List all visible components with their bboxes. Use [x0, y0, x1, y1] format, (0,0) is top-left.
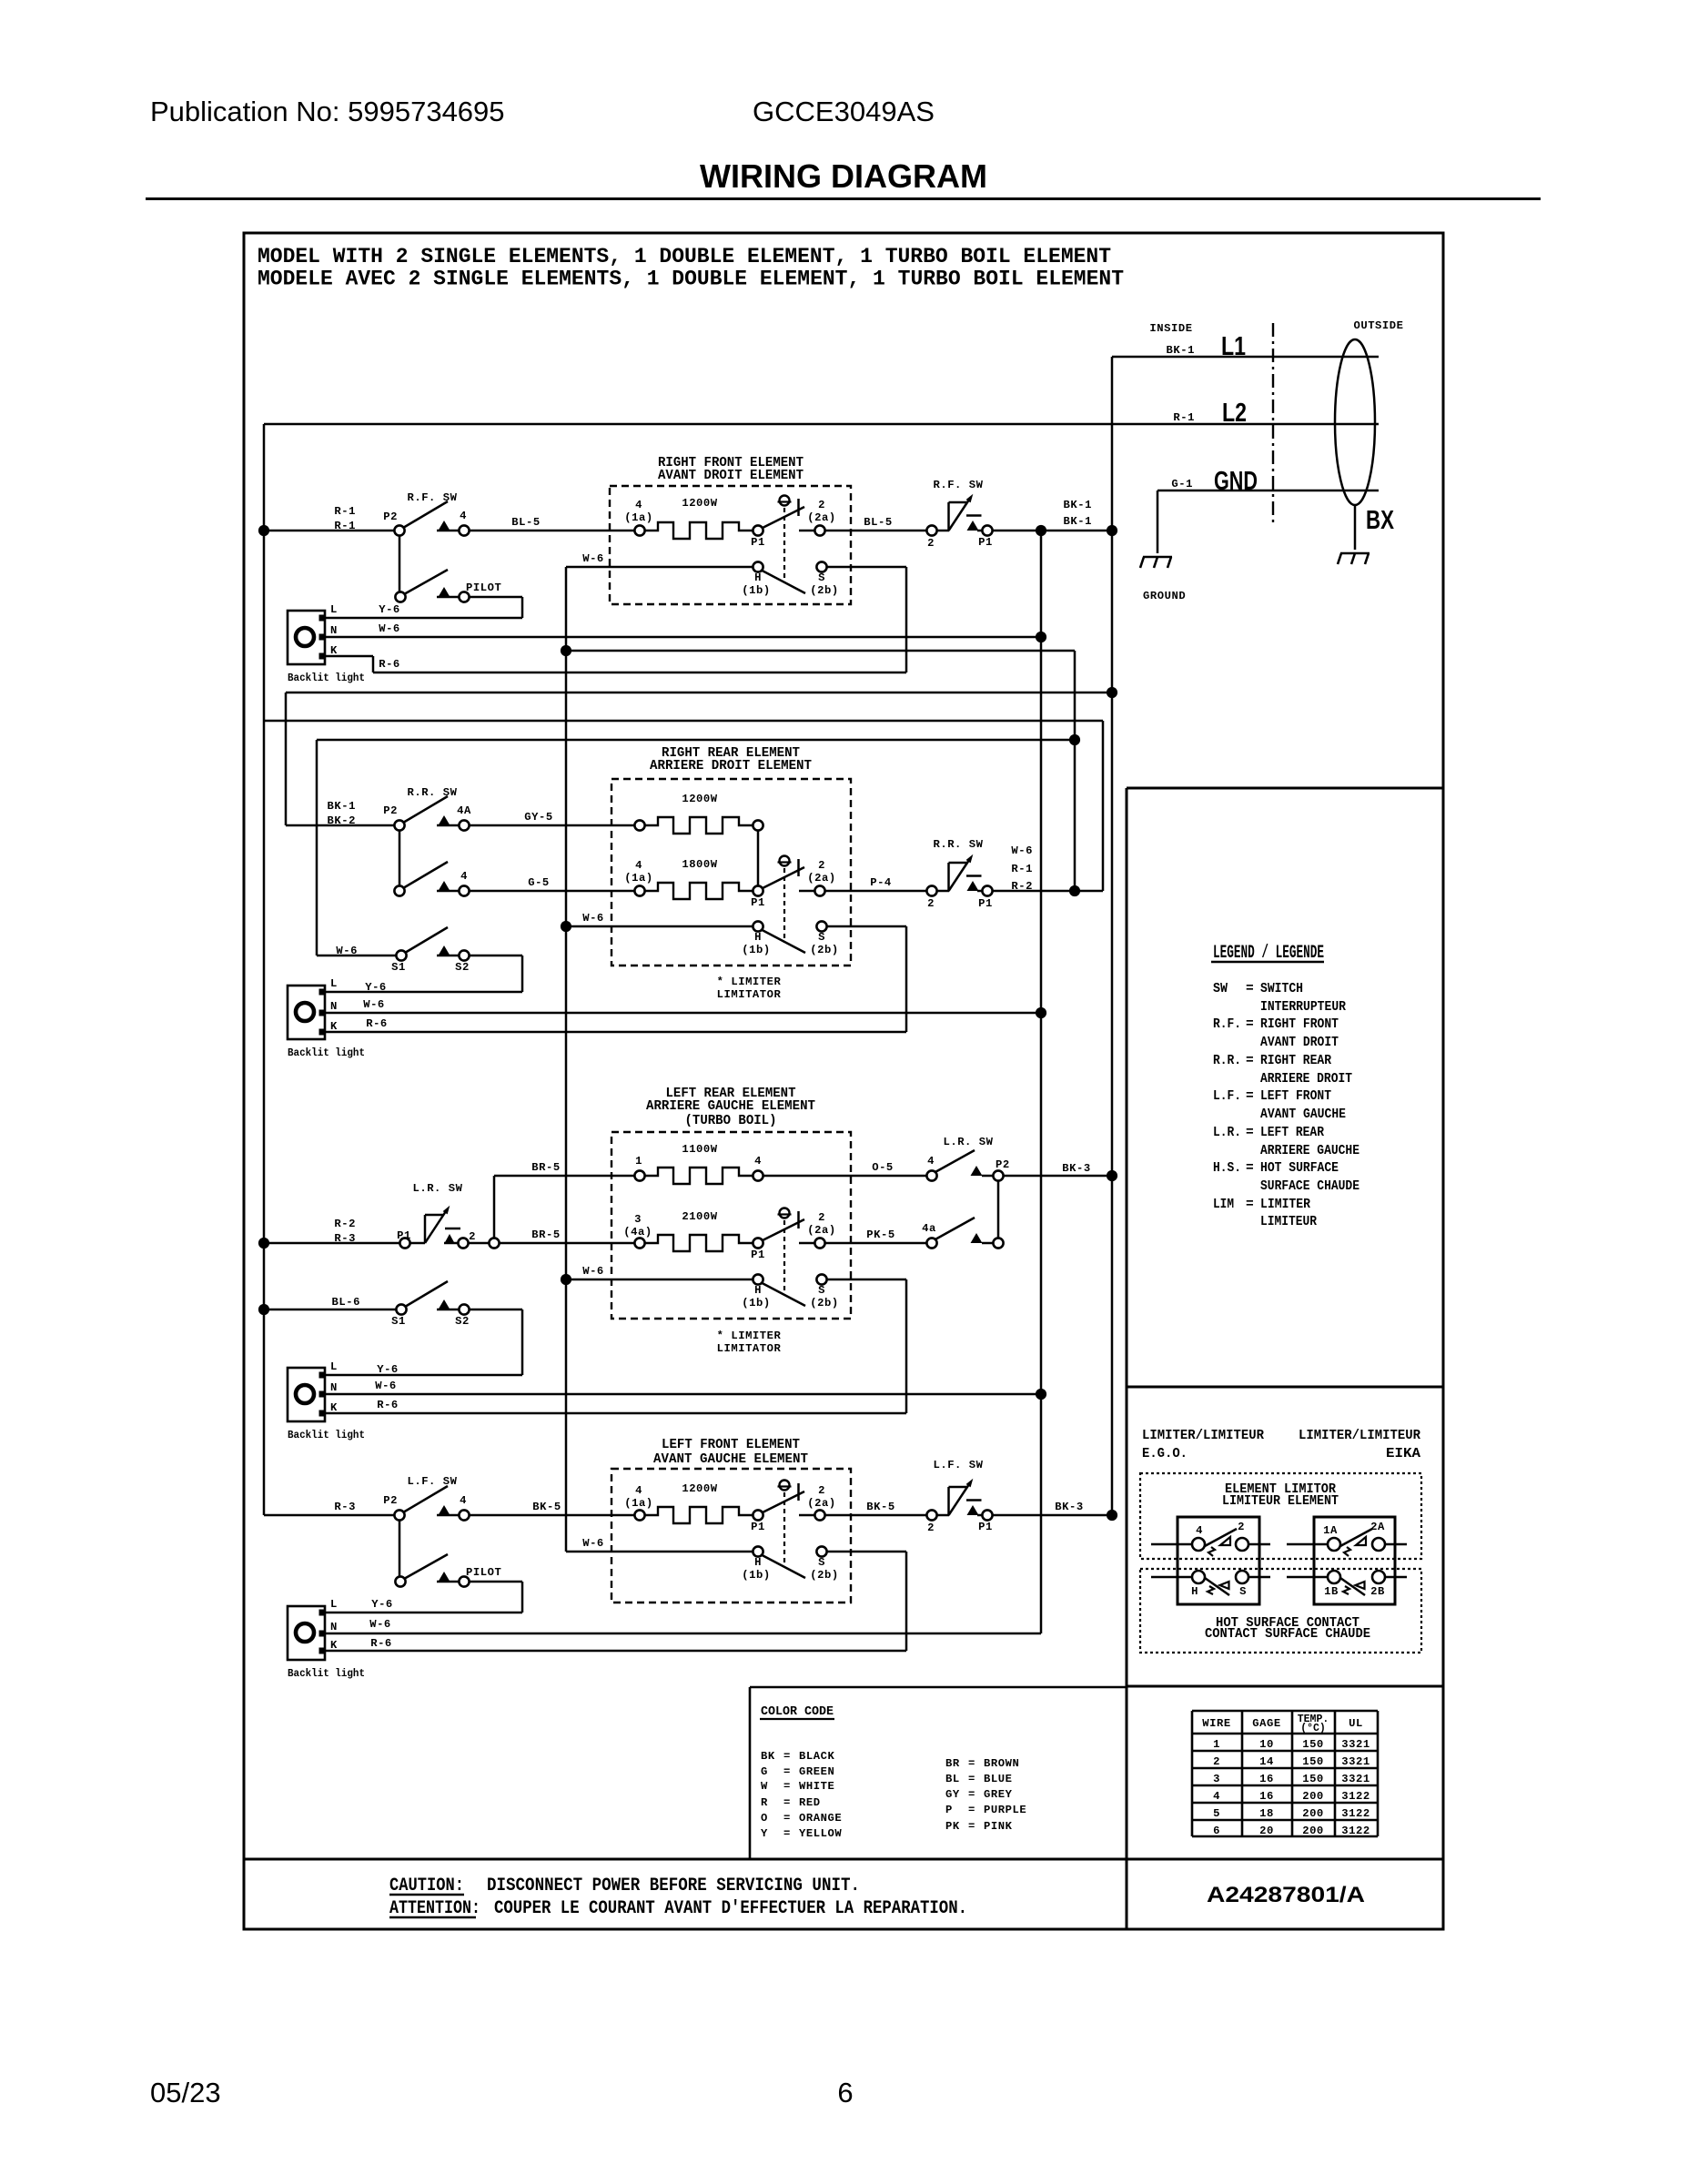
- svg-text:L.R. SW: L.R. SW: [412, 1182, 462, 1195]
- svg-text:2: 2: [1238, 1521, 1245, 1533]
- svg-text:BLUE: BLUE: [984, 1773, 1012, 1785]
- svg-text:3122: 3122: [1341, 1825, 1370, 1837]
- svg-text:H: H: [754, 931, 762, 944]
- svg-text:2B: 2B: [1370, 1585, 1385, 1598]
- svg-text:BR-5: BR-5: [531, 1161, 560, 1174]
- svg-text:R-2: R-2: [334, 1218, 356, 1230]
- svg-text:4: 4: [460, 510, 467, 522]
- svg-text:W-6: W-6: [582, 1265, 604, 1278]
- svg-text:P2: P2: [996, 1158, 1010, 1171]
- svg-text:Publication No: 5995734695: Publication No: 5995734695: [150, 96, 505, 127]
- svg-text:W-6: W-6: [336, 945, 358, 957]
- svg-text:LIMITEUR ELEMENT: LIMITEUR ELEMENT: [1222, 1494, 1339, 1509]
- svg-text:P2: P2: [383, 804, 398, 817]
- svg-text:R-6: R-6: [370, 1637, 392, 1650]
- svg-text:ARRIERE GAUCHE ELEMENT: ARRIERE GAUCHE ELEMENT: [646, 1099, 815, 1114]
- svg-text:Backlit light: Backlit light: [288, 1429, 365, 1441]
- svg-text:LIMITER: LIMITER: [1260, 1198, 1310, 1212]
- svg-text:=: =: [1246, 1017, 1254, 1032]
- svg-text:=: =: [1246, 982, 1254, 996]
- svg-text:LEFT FRONT ELEMENT: LEFT FRONT ELEMENT: [662, 1438, 800, 1452]
- svg-text:W: W: [761, 1780, 768, 1793]
- svg-text:=: =: [968, 1820, 975, 1833]
- svg-text:G-1: G-1: [1171, 478, 1193, 490]
- svg-text:R-6: R-6: [379, 658, 400, 671]
- svg-text:Backlit light: Backlit light: [288, 672, 365, 684]
- svg-text:(TURBO BOIL): (TURBO BOIL): [685, 1114, 777, 1128]
- svg-text:BL-5: BL-5: [864, 516, 892, 529]
- svg-text:R-3: R-3: [334, 1501, 356, 1513]
- svg-text:R.R. SW: R.R. SW: [933, 838, 983, 851]
- svg-text:4: 4: [460, 1494, 467, 1507]
- svg-text:=: =: [783, 1765, 791, 1778]
- svg-text:=: =: [968, 1804, 975, 1816]
- svg-text:E.G.O.: E.G.O.: [1142, 1447, 1188, 1461]
- svg-text:PILOT: PILOT: [466, 581, 501, 594]
- svg-text:2: 2: [818, 1484, 825, 1497]
- svg-text:G: G: [761, 1765, 768, 1778]
- svg-text:1800W: 1800W: [682, 858, 717, 871]
- svg-text:GY-5: GY-5: [524, 811, 552, 824]
- svg-text:14: 14: [1259, 1755, 1274, 1768]
- svg-text:R.F.: R.F.: [1213, 1017, 1241, 1032]
- svg-text:=: =: [783, 1796, 791, 1809]
- svg-text:ARRIERE DROIT ELEMENT: ARRIERE DROIT ELEMENT: [650, 759, 812, 773]
- svg-text:W-6: W-6: [582, 552, 604, 565]
- svg-text:=: =: [1246, 1161, 1254, 1176]
- svg-text:GCCE3049AS: GCCE3049AS: [753, 96, 935, 127]
- svg-text:=: =: [968, 1773, 975, 1785]
- svg-text:10: 10: [1259, 1738, 1274, 1751]
- svg-text:(2b): (2b): [810, 944, 838, 956]
- svg-text:3122: 3122: [1341, 1790, 1370, 1803]
- svg-text:2100W: 2100W: [682, 1210, 717, 1223]
- svg-text:ARRIERE GAUCHE: ARRIERE GAUCHE: [1260, 1144, 1359, 1158]
- svg-text:PINK: PINK: [984, 1820, 1013, 1833]
- svg-text:L.F. SW: L.F. SW: [933, 1459, 983, 1471]
- svg-text:150: 150: [1302, 1738, 1324, 1751]
- svg-text:16: 16: [1259, 1773, 1274, 1785]
- svg-text:Y-6: Y-6: [379, 603, 400, 616]
- svg-text:MODELE AVEC 2 SINGLE ELEMENTS,: MODELE AVEC 2 SINGLE ELEMENTS, 1 DOUBLE …: [258, 268, 1124, 291]
- svg-text:BK-1: BK-1: [1064, 515, 1092, 528]
- svg-text:O: O: [761, 1812, 768, 1825]
- svg-text:2: 2: [818, 499, 825, 511]
- svg-text:S2: S2: [455, 961, 470, 974]
- svg-text:R.R.: R.R.: [1213, 1054, 1241, 1068]
- svg-text:Y-6: Y-6: [377, 1363, 399, 1376]
- svg-text:Y: Y: [761, 1827, 768, 1840]
- svg-text:3321: 3321: [1341, 1773, 1370, 1785]
- svg-text:Backlit light: Backlit light: [288, 1667, 365, 1680]
- svg-text:=: =: [783, 1827, 791, 1840]
- svg-text:GREEN: GREEN: [799, 1765, 834, 1778]
- svg-text:UL: UL: [1349, 1717, 1363, 1730]
- svg-text:L2: L2: [1222, 399, 1247, 428]
- svg-text:R-6: R-6: [377, 1399, 399, 1411]
- svg-text:P1: P1: [978, 897, 993, 910]
- svg-text:(1b): (1b): [742, 1569, 770, 1582]
- svg-text:GREY: GREY: [984, 1788, 1013, 1801]
- svg-text:LIMITEUR: LIMITEUR: [1260, 1215, 1317, 1229]
- svg-text:H.S.: H.S.: [1213, 1161, 1241, 1176]
- svg-text:R.F. SW: R.F. SW: [407, 491, 457, 504]
- svg-text:W-6: W-6: [369, 1618, 391, 1631]
- svg-text:2: 2: [927, 1522, 935, 1534]
- svg-text:R-1: R-1: [1011, 863, 1033, 875]
- svg-text:4: 4: [1196, 1524, 1203, 1537]
- svg-text:PK: PK: [945, 1820, 960, 1833]
- svg-text:(2a): (2a): [807, 1497, 835, 1510]
- svg-text:INTERRUPTEUR: INTERRUPTEUR: [1260, 1000, 1346, 1015]
- svg-text:BL: BL: [945, 1773, 960, 1785]
- svg-text:(2a): (2a): [807, 1224, 835, 1237]
- svg-text:BK-3: BK-3: [1055, 1501, 1083, 1513]
- svg-text:P-4: P-4: [870, 876, 892, 889]
- svg-text:=: =: [968, 1757, 975, 1770]
- svg-text:LIMITATOR: LIMITATOR: [717, 988, 782, 1001]
- svg-text:* LIMITER: * LIMITER: [717, 976, 782, 988]
- svg-text:BK: BK: [761, 1750, 775, 1763]
- svg-text:P1: P1: [751, 1249, 765, 1261]
- svg-text:S: S: [818, 1284, 825, 1297]
- svg-text:L: L: [330, 603, 338, 616]
- svg-text:A24287801/A: A24287801/A: [1207, 1883, 1365, 1907]
- svg-text:BR-5: BR-5: [531, 1228, 560, 1241]
- svg-text:(2b): (2b): [810, 584, 838, 597]
- svg-text:R-3: R-3: [334, 1232, 356, 1245]
- svg-text:=: =: [1246, 1198, 1254, 1212]
- svg-text:SURFACE CHAUDE: SURFACE CHAUDE: [1260, 1179, 1359, 1194]
- svg-text:6: 6: [1213, 1825, 1220, 1837]
- svg-text:(1b): (1b): [742, 584, 770, 597]
- svg-text:1200W: 1200W: [682, 497, 717, 510]
- svg-text:G-5: G-5: [528, 876, 550, 889]
- svg-text:4: 4: [460, 870, 468, 883]
- svg-text:(1a): (1a): [624, 1497, 652, 1510]
- svg-text:4: 4: [635, 499, 642, 511]
- svg-text:S1: S1: [391, 961, 406, 974]
- svg-text:INSIDE: INSIDE: [1149, 322, 1192, 335]
- svg-text:L.F.: L.F.: [1213, 1089, 1241, 1104]
- svg-text:P2: P2: [383, 1494, 398, 1507]
- svg-text:BK-2: BK-2: [328, 814, 356, 827]
- svg-text:K: K: [330, 1401, 338, 1414]
- svg-text:2: 2: [1213, 1755, 1220, 1768]
- svg-text:W-6: W-6: [1011, 844, 1033, 857]
- svg-text:BR: BR: [945, 1757, 960, 1770]
- svg-text:BL-6: BL-6: [332, 1296, 360, 1309]
- svg-text:W-6: W-6: [379, 622, 400, 635]
- svg-text:SW: SW: [1213, 982, 1228, 996]
- svg-text:AVANT GAUCHE: AVANT GAUCHE: [1260, 1107, 1346, 1122]
- svg-text:L.R.: L.R.: [1213, 1126, 1241, 1140]
- svg-text:CAUTION:: CAUTION:: [389, 1876, 464, 1896]
- svg-text:1B: 1B: [1324, 1585, 1339, 1598]
- svg-text:WIRING DIAGRAM: WIRING DIAGRAM: [700, 157, 987, 195]
- svg-text:* LIMITER: * LIMITER: [717, 1330, 782, 1342]
- svg-text:YELLOW: YELLOW: [799, 1827, 842, 1840]
- svg-text:R-2: R-2: [1011, 880, 1033, 893]
- svg-text:LIMITATOR: LIMITATOR: [717, 1342, 782, 1355]
- svg-text:=: =: [1246, 1089, 1254, 1104]
- svg-text:LEGEND / LEGENDE: LEGEND / LEGENDE: [1213, 943, 1324, 964]
- svg-text:200: 200: [1302, 1790, 1324, 1803]
- svg-text:3: 3: [1213, 1773, 1220, 1785]
- svg-text:BK-1: BK-1: [1064, 499, 1092, 511]
- svg-text:K: K: [330, 644, 338, 657]
- svg-text:4: 4: [1213, 1790, 1220, 1803]
- svg-text:16: 16: [1259, 1790, 1274, 1803]
- svg-text:P1: P1: [751, 896, 765, 909]
- svg-text:=: =: [783, 1812, 791, 1825]
- svg-text:OUTSIDE: OUTSIDE: [1353, 319, 1403, 332]
- svg-text:L: L: [330, 1598, 338, 1611]
- svg-text:H: H: [754, 1556, 762, 1569]
- svg-text:CONTACT SURFACE CHAUDE: CONTACT SURFACE CHAUDE: [1205, 1627, 1370, 1642]
- svg-text:1A: 1A: [1323, 1524, 1338, 1537]
- svg-text:P1: P1: [751, 536, 765, 549]
- svg-text:(2a): (2a): [807, 511, 835, 524]
- svg-text:4: 4: [754, 1155, 762, 1168]
- svg-text:S: S: [1239, 1585, 1247, 1598]
- svg-text:BL-5: BL-5: [511, 516, 540, 529]
- svg-text:2: 2: [469, 1230, 476, 1243]
- svg-text:3: 3: [634, 1213, 642, 1226]
- svg-text:1: 1: [635, 1155, 642, 1168]
- svg-text:AVANT DROIT: AVANT DROIT: [1260, 1036, 1339, 1050]
- svg-text:ORANGE: ORANGE: [799, 1812, 842, 1825]
- svg-text:6: 6: [837, 2077, 853, 2108]
- svg-text:H: H: [754, 571, 762, 584]
- svg-text:150: 150: [1302, 1755, 1324, 1768]
- svg-text:4: 4: [927, 1155, 935, 1168]
- svg-text:1: 1: [1213, 1738, 1220, 1751]
- svg-text:(2a): (2a): [807, 872, 835, 885]
- svg-text:1100W: 1100W: [682, 1143, 717, 1156]
- svg-text:R-6: R-6: [366, 1017, 388, 1030]
- svg-text:S1: S1: [391, 1315, 406, 1328]
- svg-text:R.R. SW: R.R. SW: [407, 786, 457, 799]
- svg-text:N: N: [330, 1621, 338, 1633]
- svg-text:RED: RED: [799, 1796, 821, 1809]
- svg-text:4: 4: [635, 1484, 642, 1497]
- svg-text:LIM: LIM: [1213, 1198, 1234, 1212]
- svg-text:ARRIERE DROIT: ARRIERE DROIT: [1260, 1072, 1352, 1087]
- svg-text:150: 150: [1302, 1773, 1324, 1785]
- svg-text:BK-5: BK-5: [866, 1501, 895, 1513]
- svg-text:N: N: [330, 1381, 338, 1394]
- svg-text:N: N: [330, 1000, 338, 1013]
- svg-text:W-6: W-6: [375, 1380, 397, 1392]
- svg-text:20: 20: [1259, 1825, 1274, 1837]
- svg-text:S: S: [818, 931, 825, 944]
- svg-text:GROUND: GROUND: [1143, 590, 1186, 602]
- svg-text:2: 2: [927, 897, 935, 910]
- svg-text:=: =: [1246, 1054, 1254, 1068]
- svg-text:200: 200: [1302, 1807, 1324, 1820]
- svg-text:P2: P2: [383, 511, 398, 523]
- svg-text:L1: L1: [1221, 332, 1246, 361]
- svg-text:P: P: [945, 1804, 953, 1816]
- svg-text:4: 4: [635, 859, 642, 872]
- svg-text:WHITE: WHITE: [799, 1780, 834, 1793]
- svg-text:1200W: 1200W: [682, 1482, 717, 1495]
- svg-text:=: =: [1246, 1126, 1254, 1140]
- svg-text:N: N: [330, 624, 338, 637]
- svg-text:BK-1: BK-1: [1167, 344, 1195, 357]
- svg-text:5: 5: [1213, 1807, 1220, 1820]
- svg-text:P1: P1: [978, 1521, 993, 1533]
- svg-text:R: R: [761, 1796, 768, 1809]
- svg-text:(4a): (4a): [623, 1226, 652, 1239]
- svg-text:SWITCH: SWITCH: [1260, 982, 1303, 996]
- svg-text:L.R. SW: L.R. SW: [943, 1136, 993, 1148]
- svg-text:GND: GND: [1214, 467, 1258, 496]
- svg-text:2: 2: [818, 859, 825, 872]
- svg-text:R-1: R-1: [1173, 411, 1195, 424]
- svg-text:=: =: [968, 1788, 975, 1801]
- svg-text:H: H: [754, 1284, 762, 1297]
- svg-text:PURPLE: PURPLE: [984, 1804, 1026, 1816]
- svg-text:S2: S2: [455, 1315, 470, 1328]
- svg-text:AVANT DROIT ELEMENT: AVANT DROIT ELEMENT: [658, 469, 804, 483]
- svg-text:PK-5: PK-5: [866, 1228, 895, 1241]
- svg-text:AVANT GAUCHE ELEMENT: AVANT GAUCHE ELEMENT: [653, 1452, 808, 1467]
- svg-text:R.F. SW: R.F. SW: [933, 479, 983, 491]
- svg-text:W-6: W-6: [363, 998, 385, 1011]
- svg-text:R-1: R-1: [334, 520, 356, 532]
- svg-text:=: =: [783, 1750, 791, 1763]
- svg-text:MODEL WITH 2 SINGLE ELEMENTS,: MODEL WITH 2 SINGLE ELEMENTS, 1 DOUBLE E…: [258, 245, 1111, 268]
- svg-text:K: K: [330, 1020, 338, 1033]
- svg-text:3122: 3122: [1341, 1807, 1370, 1820]
- svg-text:LIMITER/LIMITEUR: LIMITER/LIMITEUR: [1142, 1429, 1264, 1443]
- svg-text:(1a): (1a): [624, 511, 652, 524]
- svg-text:EIKA: EIKA: [1386, 1447, 1420, 1461]
- svg-text:(°C): (°C): [1300, 1723, 1326, 1734]
- svg-text:Y-6: Y-6: [365, 981, 387, 994]
- svg-text:W-6: W-6: [582, 1537, 604, 1550]
- svg-text:S: S: [818, 571, 825, 584]
- svg-text:BLACK: BLACK: [799, 1750, 834, 1763]
- svg-text:(2b): (2b): [810, 1569, 838, 1582]
- svg-text:18: 18: [1259, 1807, 1274, 1820]
- svg-text:RIGHT FRONT: RIGHT FRONT: [1260, 1017, 1339, 1032]
- svg-text:(1b): (1b): [742, 944, 770, 956]
- svg-text:BROWN: BROWN: [984, 1757, 1019, 1770]
- svg-text:GY: GY: [945, 1788, 960, 1801]
- svg-text:RIGHT REAR: RIGHT REAR: [1260, 1054, 1331, 1068]
- svg-text:200: 200: [1302, 1825, 1324, 1837]
- svg-text:P1: P1: [978, 536, 993, 549]
- svg-text:H: H: [1191, 1585, 1198, 1598]
- svg-text:LEFT FRONT: LEFT FRONT: [1260, 1089, 1331, 1104]
- svg-text:COUPER LE COURANT AVANT D'EFFE: COUPER LE COURANT AVANT D'EFFECTUER LA R…: [494, 1898, 967, 1919]
- svg-text:HOT SURFACE: HOT SURFACE: [1260, 1161, 1339, 1176]
- svg-text:K: K: [330, 1639, 338, 1652]
- svg-text:O-5: O-5: [872, 1161, 894, 1174]
- svg-text:BX: BX: [1366, 506, 1394, 535]
- svg-text:2: 2: [818, 1211, 825, 1224]
- svg-text:BK-3: BK-3: [1062, 1162, 1090, 1175]
- svg-text:R-1: R-1: [334, 505, 356, 518]
- svg-text:W-6: W-6: [582, 912, 604, 925]
- svg-text:LIMITER/LIMITEUR: LIMITER/LIMITEUR: [1299, 1429, 1420, 1443]
- svg-text:DISCONNECT POWER BEFORE SERVIC: DISCONNECT POWER BEFORE SERVICING UNIT.: [487, 1876, 860, 1896]
- svg-text:P1: P1: [751, 1521, 765, 1533]
- svg-text:3321: 3321: [1341, 1755, 1370, 1768]
- svg-text:L.F. SW: L.F. SW: [407, 1475, 457, 1488]
- svg-text:S: S: [818, 1556, 825, 1569]
- svg-text:BK-1: BK-1: [328, 800, 356, 813]
- svg-text:ATTENTION:: ATTENTION:: [389, 1898, 480, 1919]
- svg-text:2A: 2A: [1370, 1521, 1385, 1533]
- svg-text:1200W: 1200W: [682, 793, 717, 805]
- svg-text:=: =: [783, 1780, 791, 1793]
- svg-text:COLOR CODE: COLOR CODE: [761, 1704, 834, 1719]
- svg-text:BK-5: BK-5: [532, 1501, 561, 1513]
- svg-text:L: L: [330, 1360, 338, 1373]
- svg-text:Y-6: Y-6: [371, 1598, 393, 1611]
- svg-text:WIRE: WIRE: [1202, 1717, 1230, 1730]
- svg-text:L: L: [330, 977, 338, 990]
- svg-text:Backlit light: Backlit light: [288, 1046, 365, 1059]
- svg-text:LEFT REAR: LEFT REAR: [1260, 1126, 1324, 1140]
- svg-text:05/23: 05/23: [150, 2077, 221, 2108]
- svg-text:3321: 3321: [1341, 1738, 1370, 1751]
- svg-text:PILOT: PILOT: [466, 1566, 501, 1579]
- svg-text:(1a): (1a): [624, 872, 652, 885]
- svg-text:4a: 4a: [922, 1222, 936, 1235]
- svg-text:GAGE: GAGE: [1252, 1717, 1280, 1730]
- svg-text:(2b): (2b): [810, 1297, 838, 1309]
- svg-text:(1b): (1b): [742, 1297, 770, 1309]
- svg-text:4A: 4A: [457, 804, 471, 817]
- svg-text:2: 2: [927, 537, 935, 550]
